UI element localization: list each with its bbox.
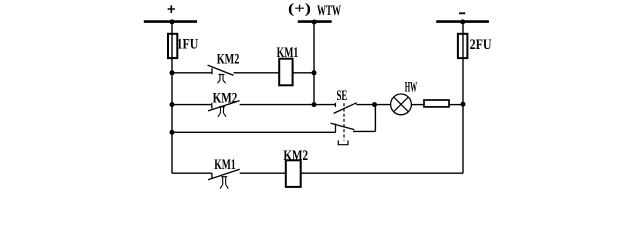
svg-text:KM1: KM1 [214, 157, 235, 173]
svg-text:HW: HW [405, 79, 418, 95]
svg-text:KM2: KM2 [217, 51, 240, 67]
svg-text:2FU: 2FU [470, 37, 492, 53]
svg-text:SE: SE [337, 88, 348, 104]
svg-text:KM2: KM2 [283, 148, 308, 164]
svg-text:KM2: KM2 [213, 90, 238, 106]
svg-text:1FU: 1FU [177, 37, 199, 53]
svg-text:(+): (+) [288, 1, 311, 17]
svg-text:WTW: WTW [317, 3, 341, 19]
svg-text:KM1: KM1 [277, 45, 299, 61]
